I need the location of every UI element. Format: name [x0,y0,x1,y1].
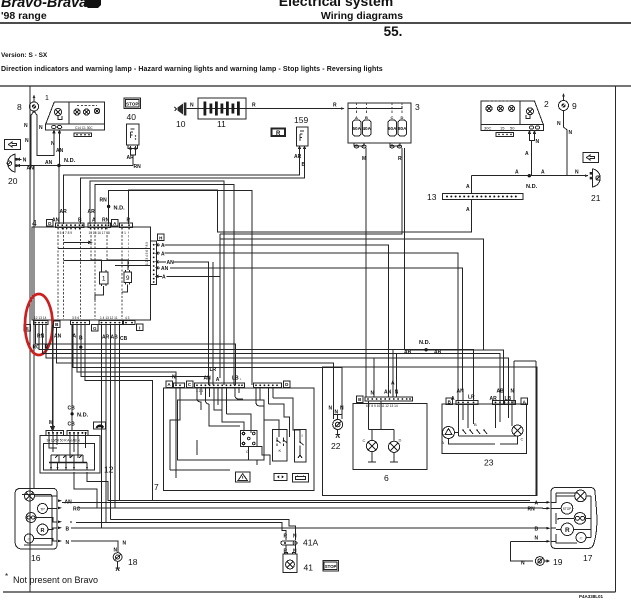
svg-text:B: B [78,218,82,224]
inner panel in 7 [178,400,265,460]
svg-text:N: N [172,375,176,381]
connector label H [158,234,165,241]
arrow icon box left [5,140,21,150]
svg-text:N: N [25,138,29,144]
wire N 41A long [111,519,296,540]
fuse box 3 [344,102,420,148]
wire AR2 into box 4 [90,181,224,385]
cluster enclosure [323,367,537,495]
svg-text:AR: AR [88,209,96,215]
svg-text:M: M [362,156,366,162]
svg-text:N.D.: N.D. [77,413,89,419]
svg-text:R: R [276,131,281,137]
svg-text:41A: 41A [303,538,318,548]
svg-text:N: N [535,536,539,542]
svg-text:N.D.: N.D. [114,206,126,212]
bottom pins of 12 [51,463,87,471]
wire A above 13 [470,176,472,194]
svg-text:AB: AB [434,350,442,356]
svg-text:6: 6 [384,473,389,483]
connector label B box6 [357,396,364,403]
STOP label 40 [124,98,141,122]
svg-text:1 2 3 4 5 6 7 8 9: 1 2 3 4 5 6 7 8 9 [145,242,149,265]
svg-text:50: 50 [510,125,515,130]
wire AN continues to box 4 [58,166,60,225]
svg-text:Electrical system: Electrical system [279,0,393,9]
wire LR drop to 23 [458,390,514,404]
lamp cluster 16 [15,489,62,564]
STOP label bottom [323,561,339,572]
svg-text:50A: 50A [352,126,361,131]
node A junction right [528,174,531,177]
wire R 41A long [76,523,286,540]
logo mark [85,0,101,8]
wire N to ground 18 [71,541,118,553]
switch housing I [295,430,307,463]
connector label I [137,324,144,331]
svg-text:⊂: ⊂ [27,537,30,542]
svg-text:AN: AN [161,266,169,272]
svg-text:R: R [398,156,402,162]
svg-text:R: R [252,103,256,109]
ignition feed 9 [559,93,578,111]
reversing lamps box 6 [353,404,427,483]
svg-text:B: B [365,115,368,120]
wire drop to box 7 A [219,234,221,378]
svg-text:STOP: STOP [126,101,138,106]
R icon box [271,128,286,137]
svg-text:Version: S - SX: Version: S - SX [1,52,48,59]
svg-text:N: N [23,158,27,164]
svg-text:N: N [51,141,55,147]
connector 41A [281,534,319,548]
box 4 internal bus wires [58,248,151,250]
lamp C in 6 [363,438,378,452]
svg-text:80A: 80A [398,126,407,131]
svg-text:R: R [41,528,45,534]
connector label B bottom [54,321,61,328]
ground 18 [113,553,138,571]
relay 1 inside box 4 [100,270,109,286]
svg-text:A: A [92,218,96,224]
svg-text:N: N [123,541,127,547]
lamp cluster 17 [547,488,597,564]
svg-text:TP: TP [40,508,45,512]
cluster box 7 [154,388,314,492]
wire RN branch right [109,191,252,386]
highlight red ellipse [25,294,53,355]
frame bottom [3,591,616,593]
svg-text:RN: RN [134,164,142,170]
node RN N.D. [107,205,110,208]
wire A right 2 [156,252,458,390]
svg-text:A: A [515,170,519,176]
wires into 6 [373,358,375,397]
svg-text:STOP: STOP [563,507,572,511]
wire N from 8 left leg [30,116,32,166]
header rule [0,22,631,24]
svg-text:AR: AR [294,154,302,160]
svg-text:D: D [401,115,404,120]
svg-text:P4A338L01: P4A338L01 [579,594,604,599]
horn 10 [175,103,187,130]
svg-text:12: 12 [104,465,114,475]
wire M from 3 [365,148,367,397]
svg-text:H: H [159,235,162,240]
wire N A from 2 [530,138,535,176]
arrow icon box right [583,153,599,163]
svg-text:Not present on Bravo: Not present on Bravo [13,575,98,585]
svg-text:4: 4 [32,218,37,228]
wire RN band [36,325,236,385]
wire AN under 1 [59,137,61,166]
wire B from 159 [81,151,305,224]
relay inside 7 [241,431,270,465]
wire A to 17 [543,501,547,503]
relay 9 inside box 4 [124,270,132,285]
svg-text:N: N [293,534,297,540]
wire long 235 [220,239,484,350]
svg-text:9: 9 [126,275,130,282]
lamp D in 6 [388,438,401,453]
svg-text:B: B [474,422,477,427]
wire drop long 5 [119,325,121,501]
relay block 2 [481,99,549,138]
pin strip 23a [456,401,478,405]
svg-text:STOP: STOP [325,564,337,569]
wire from 12 pin to A run [87,472,530,501]
svg-text:G: G [93,326,97,331]
svg-text:N: N [521,561,525,567]
svg-text:1 4 13 12 11: 1 4 13 12 11 [100,316,118,320]
svg-text:A: A [442,440,445,445]
pins left side of 17 [547,501,551,543]
svg-text:N: N [39,125,43,131]
wire RN to 17 [543,507,547,509]
svg-text:18: 18 [128,557,138,567]
wire AB horizontal [405,350,504,404]
svg-text:RN: RN [528,507,536,513]
right connector of box 4 [145,241,157,284]
svg-text:N: N [66,540,70,546]
svg-text:4 3: 4 3 [125,316,130,320]
svg-text:N: N [24,123,28,129]
svg-text:16: 16 [31,553,41,563]
hazard lamp A in 23 [442,427,455,446]
lamp C in 23 [500,425,524,444]
svg-text:N: N [340,406,344,412]
svg-text:41: 41 [304,563,314,573]
fuse/junction unit 4 [32,218,151,320]
wire CB with node to box 12 [71,325,73,431]
svg-text:RN: RN [100,198,108,204]
pin strip bottom 2 [71,316,90,325]
ignition switch 8 [17,95,39,116]
svg-text:LB .: LB . [232,376,242,382]
flasher unit 159 [294,115,308,151]
wire N to 17 [511,540,547,542]
relay 40 [126,124,139,152]
svg-text:40A: 40A [362,126,371,131]
wire R from 3 [220,148,402,234]
svg-text:A: A [451,396,455,402]
svg-text:*: * [70,521,72,527]
svg-text:LR: LR [468,395,475,401]
connector label C box7 [186,381,193,388]
wire M bold to box 12 [51,325,55,431]
LR wire drop [212,262,214,385]
svg-text:159: 159 [294,115,308,125]
connector label A box7 [166,381,173,388]
svg-text:A: A [466,184,470,190]
svg-text:D: D [399,438,402,443]
svg-text:AR: AR [490,396,498,402]
svg-text:30C: 30C [484,125,491,130]
svg-text:C: C [363,438,366,443]
svg-text:N.D.: N.D. [64,158,76,164]
frame top [0,85,631,87]
battery icon box in 7 [293,473,309,482]
svg-text:N: N [557,121,561,127]
svg-text:M: M [49,420,53,426]
wire AN band [57,327,334,419]
pin strip bottom 3 [99,316,123,325]
inside box 7 wires [170,388,180,476]
svg-text:12 13 14: 12 13 14 [34,316,47,320]
wire R band [43,325,501,404]
svg-text:AB: AB [111,335,119,341]
svg-text:N: N [190,103,194,109]
pin strip 7a [174,383,185,387]
wire N left vertical [33,166,35,489]
ground 19 [535,557,562,567]
svg-text:6 7 8 9 10 11 12 13 14: 6 7 8 9 10 11 12 13 14 [366,404,398,408]
connector label E [24,325,31,332]
node AB junction [424,348,427,351]
svg-text:N: N [575,170,579,176]
wire RC-RN long [78,507,543,509]
connector label D box7 [284,381,291,388]
svg-text:AR: AR [127,155,135,161]
wire N right path [514,361,536,496]
svg-text:N: N [569,130,573,136]
svg-text:CB: CB [68,422,76,428]
hazard icon box in 7 [236,472,250,482]
svg-text:1: 1 [102,276,106,283]
wire A horizontal to 21 [471,175,588,177]
svg-text:A: A [161,251,165,257]
svg-text:2: 2 [544,99,549,109]
svg-text:R: R [333,103,337,109]
wire AN-A long [62,501,543,503]
pin strip 7c [254,383,282,387]
pin strip top 1 [56,223,85,235]
wire RC band [39,325,474,401]
frame left [29,86,31,592]
wire from 12 pin to RC run [74,472,97,508]
svg-text:15: 15 [500,125,505,130]
svg-text:A: A [525,151,529,157]
svg-text:⊂: ⊂ [579,536,582,541]
wire A below 13 [470,200,472,210]
svg-text:10: 10 [176,119,186,129]
switch I inside 7 [298,433,304,458]
internal wires to relays [91,260,102,270]
pin strip bottom 4 [124,316,136,325]
wire AB drop long [105,325,107,523]
wire R from 11 to 3 [246,108,344,110]
inside 23 [459,404,513,428]
svg-text:N: N [536,139,540,145]
svg-text:B: B [66,527,70,533]
pin strip top 3 [120,223,133,235]
pin strip 23b [493,401,516,405]
svg-text:C: C [391,115,394,120]
wire band 4 [46,325,509,404]
switch K inside 7 [276,438,287,453]
side repeater 20 [7,154,27,186]
svg-text:AN: AN [52,218,60,224]
reversing switch 41 [283,545,313,573]
svg-text:K: K [279,448,282,453]
car icon box [94,422,106,429]
wire A into box 4 [95,185,234,386]
svg-text:AB: AB [404,350,412,356]
svg-text:B: B [535,527,539,533]
connector label A box23 [521,398,528,405]
internal connects 17 [556,496,591,538]
indicator icon box in 7 [274,473,287,480]
svg-text:N: N [511,389,515,395]
svg-text:RN: RN [37,334,45,340]
rear lamps unit 23 [442,404,527,467]
svg-text:I: I [139,325,140,330]
svg-text:AN: AN [45,160,53,166]
wire AR RN from relay 40 [131,152,134,166]
wire B to 17 [543,527,547,529]
connector label A [112,220,119,227]
svg-text:60A: 60A [388,126,397,131]
svg-text:CB: CB [68,406,76,412]
connector label B box23 [446,398,453,405]
wire B long [71,527,543,529]
svg-text:A: A [535,501,539,507]
svg-text:A: A [466,207,470,213]
wire AN right 1 [156,261,208,386]
wire N from 8 right leg [37,116,54,156]
svg-text:55.: 55. [384,24,403,39]
switch housing K [273,430,288,462]
svg-text:C14 C1 30C: C14 C1 30C [75,126,93,130]
svg-text:11: 11 [217,119,226,129]
wire RN into box 4 [108,196,110,224]
wire A right 1 [156,244,388,397]
svg-text:N: N [329,406,333,412]
svg-text:I: I [302,433,303,438]
svg-text:R: R [565,527,570,534]
svg-text:C: C [521,437,524,442]
pin strip 7b [195,383,245,393]
svg-text:AN: AN [204,376,212,382]
svg-text:22: 22 [331,441,341,451]
svg-text:21: 21 [591,193,601,203]
svg-text:Wiring diagrams: Wiring diagrams [321,10,403,22]
fuse box 11 [198,98,246,129]
switches in 23 [459,425,519,436]
svg-text:19: 19 [553,557,563,567]
svg-text:AN: AN [167,260,175,266]
box 4 internal link wire [63,241,91,244]
svg-text:'98 range: '98 range [1,10,47,22]
inside 6 wiring [369,401,395,441]
svg-text:13: 13 [427,192,437,202]
svg-text:A: A [216,377,220,383]
frame right [615,86,617,592]
svg-text:N: N [335,410,339,416]
box 4 interior dashed drops [57,228,59,320]
connector label G [92,325,99,332]
wire AN right 2 [156,267,463,391]
pin arrows under 1 [53,131,56,137]
connector label D [47,220,54,227]
wire CB drop long [110,325,112,520]
internal bus [49,462,87,464]
svg-text:N.D.: N.D. [526,184,538,190]
svg-text:AN: AN [27,165,35,171]
box 4 bottom red-circled pins [34,316,49,325]
svg-text:A: A [541,170,545,176]
wire B band with node [77,325,176,385]
wire AR from 159 [64,151,300,224]
svg-text:AN: AN [54,334,62,340]
svg-text:A: A [355,115,358,120]
node N.D. junction [57,164,60,167]
svg-text:A: A [162,275,166,281]
svg-text:N.D.: N.D. [419,340,431,346]
svg-text:40: 40 [127,112,137,122]
svg-text:7: 7 [154,482,159,492]
svg-text:30 15/54 50 R AN AB N: 30 15/54 50 R AN AB N [47,439,81,443]
svg-text:*: * [5,572,8,581]
svg-text:1: 1 [45,95,49,102]
svg-text:3: 3 [415,102,420,112]
svg-text:R: R [284,534,288,540]
relay block 1 [45,95,105,137]
pin strip top 2 [88,223,111,235]
svg-text:23: 23 [484,458,494,468]
side repeater 21 [590,169,601,203]
wire N to fuse 11 [187,108,199,110]
wire N from 9 [564,111,568,176]
svg-text:3 5 6: 3 5 6 [72,316,79,320]
connector strip 13 [427,192,523,202]
wire N down to ground 19 [511,541,533,561]
svg-text:Direction indicators and warni: Direction indicators and warning lamp - … [1,66,383,73]
wire A right 3 [156,275,220,278]
svg-text:17: 17 [583,553,593,563]
svg-text:4 5 6 7 8 9: 4 5 6 7 8 9 [57,231,72,235]
svg-text:AR: AR [60,209,68,215]
svg-text:20: 20 [8,176,18,186]
ground 22 [331,420,343,452]
wire AN horizontal [20,165,133,167]
svg-text:AB: AB [497,389,505,395]
svg-text:8: 8 [17,102,22,112]
svg-text:AN: AN [56,148,64,154]
svg-text:AN: AN [384,390,392,396]
wire A band [73,325,342,419]
ground 22 wires N N [334,367,343,419]
